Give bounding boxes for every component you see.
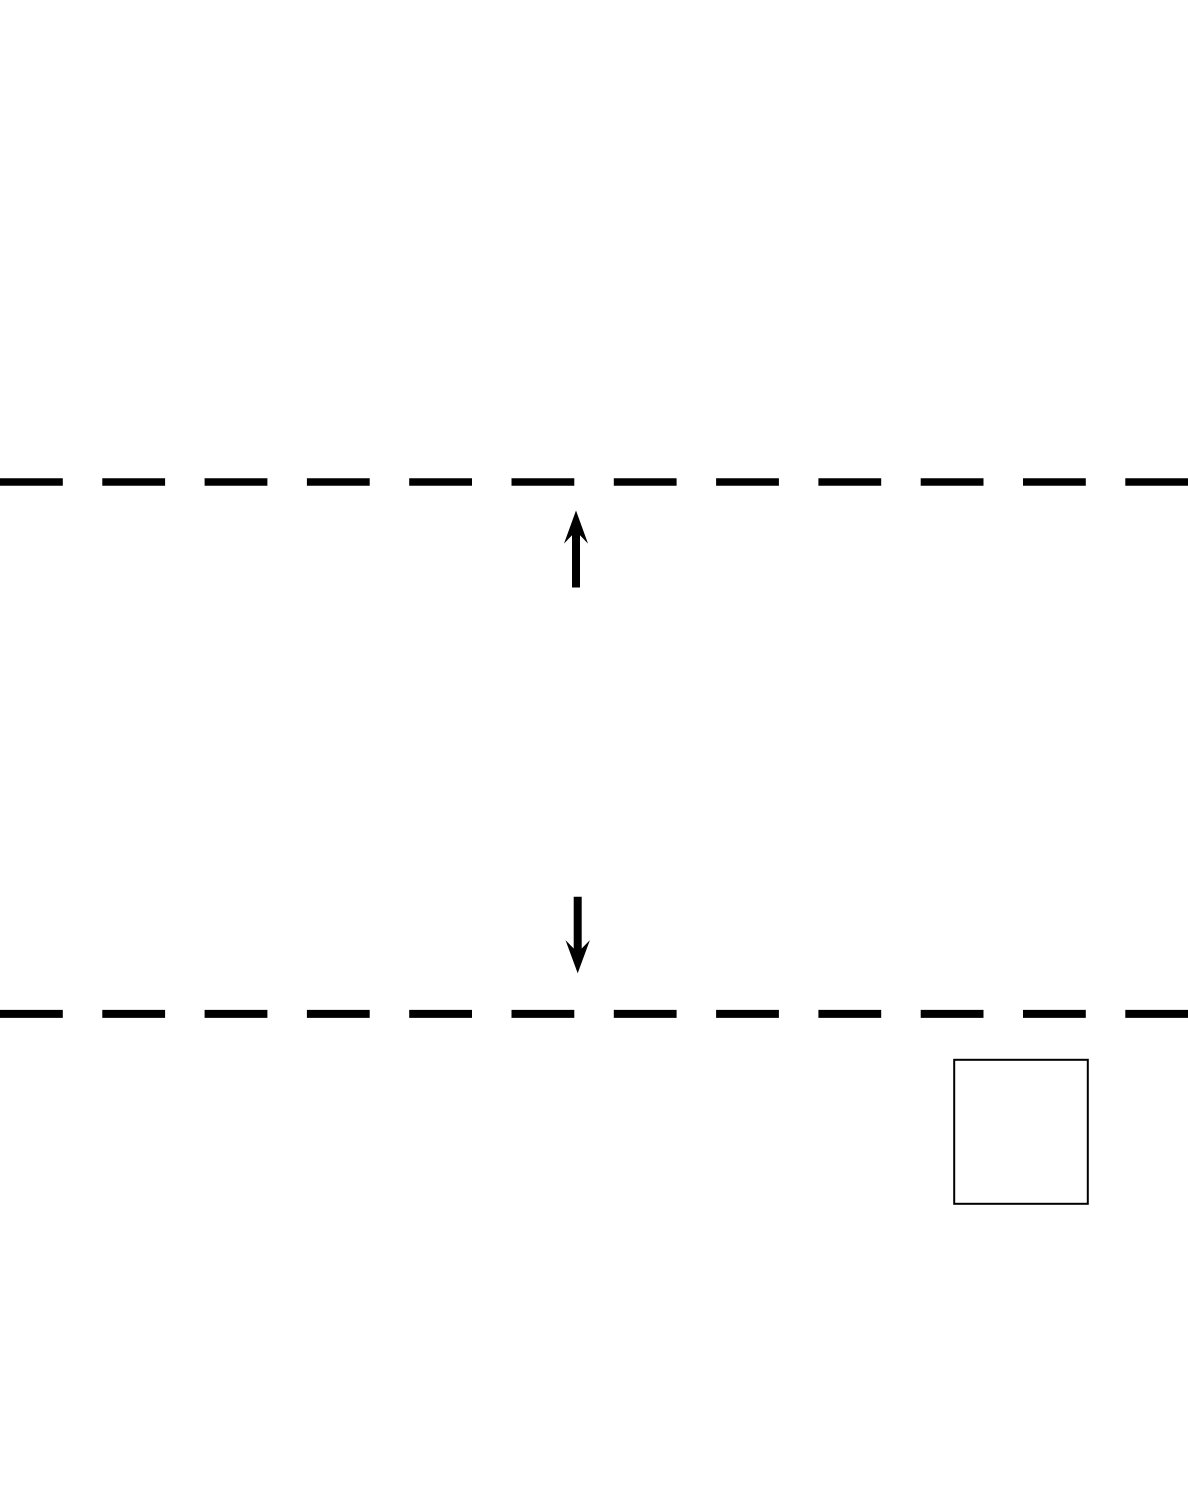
box [954,1060,1088,1204]
arrow down [566,897,590,973]
dashed line top [0,478,1188,486]
dashed line bottom [0,1010,1188,1018]
arrow up [564,511,588,588]
